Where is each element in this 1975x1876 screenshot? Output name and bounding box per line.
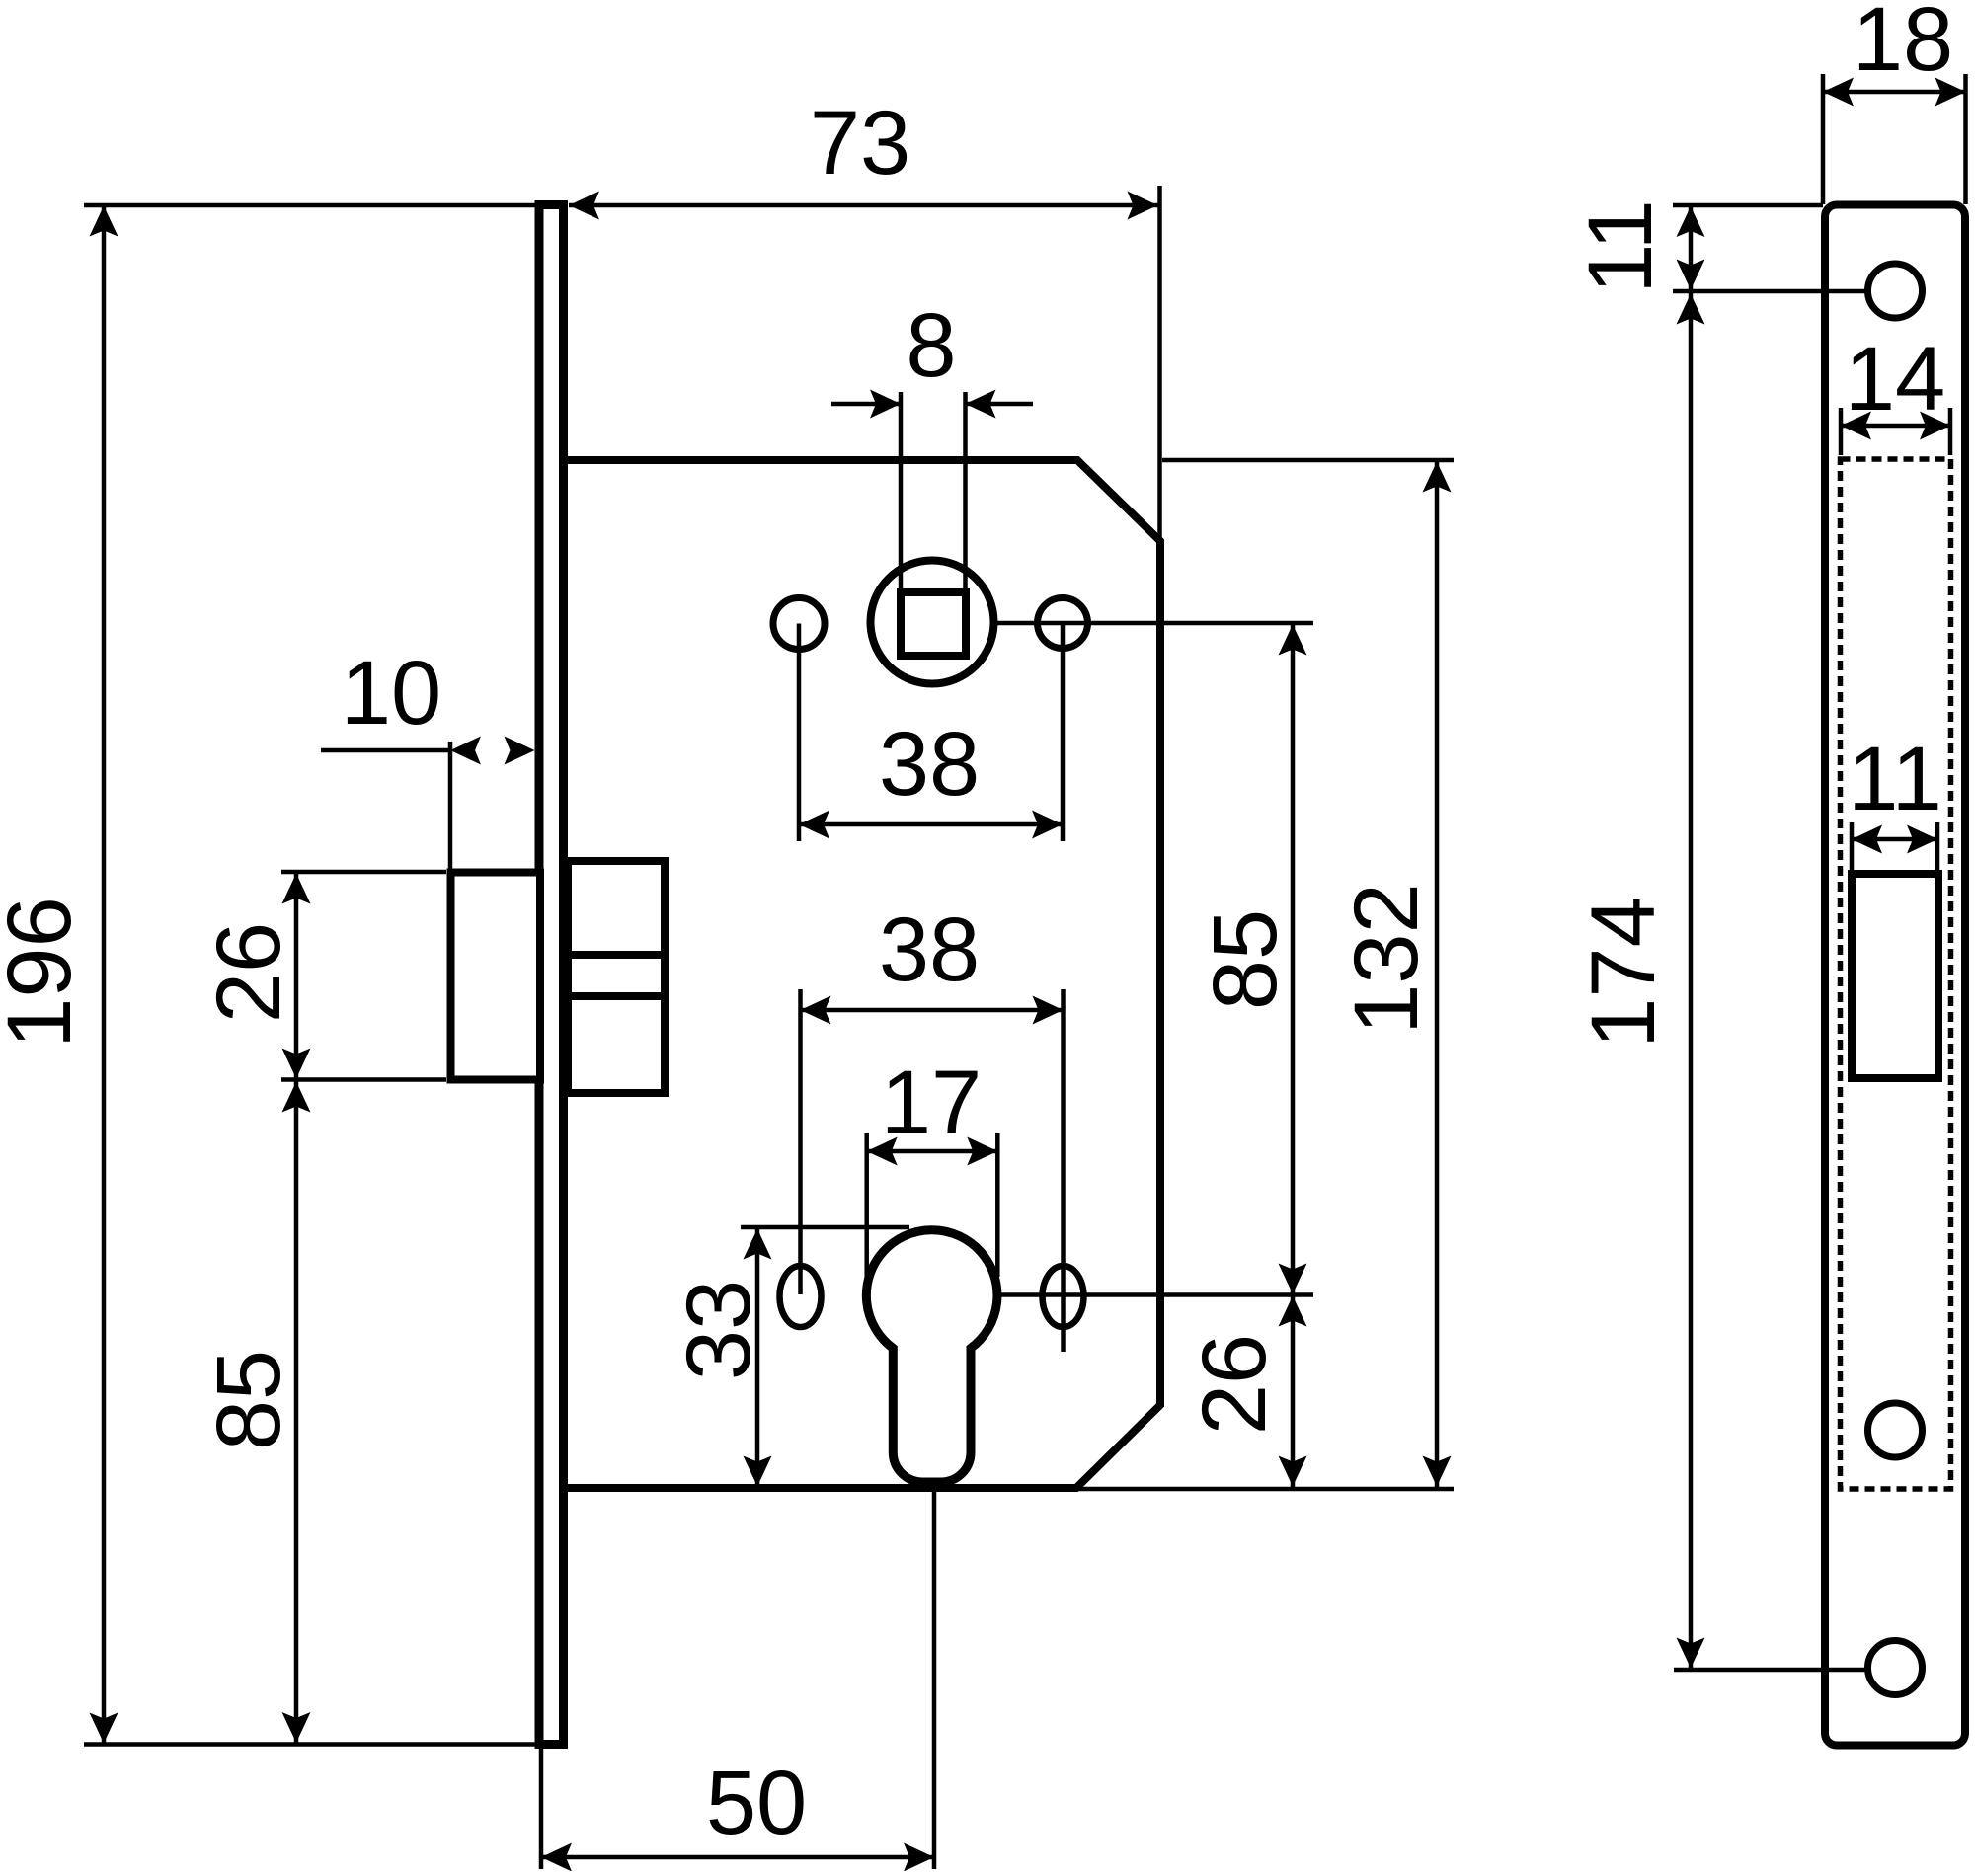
svg-text:26: 26 [198,922,299,1023]
svg-text:174: 174 [1573,897,1674,1049]
svg-text:10: 10 [341,643,441,743]
svg-text:8: 8 [906,295,956,396]
svg-text:33: 33 [669,1280,769,1380]
svg-text:38: 38 [879,714,980,815]
svg-text:26: 26 [1184,1334,1285,1435]
svg-text:17: 17 [881,1053,982,1153]
svg-text:14: 14 [1845,329,1945,430]
svg-text:38: 38 [879,899,980,1000]
svg-text:11: 11 [1848,729,1942,829]
svg-text:11: 11 [1570,199,1671,294]
svg-text:85: 85 [1195,909,1296,1010]
svg-text:18: 18 [1853,0,1953,90]
svg-text:73: 73 [810,93,910,194]
svg-text:85: 85 [198,1350,299,1450]
svg-text:132: 132 [1336,883,1437,1035]
svg-text:50: 50 [706,1753,807,1853]
svg-text:196: 196 [0,897,90,1049]
